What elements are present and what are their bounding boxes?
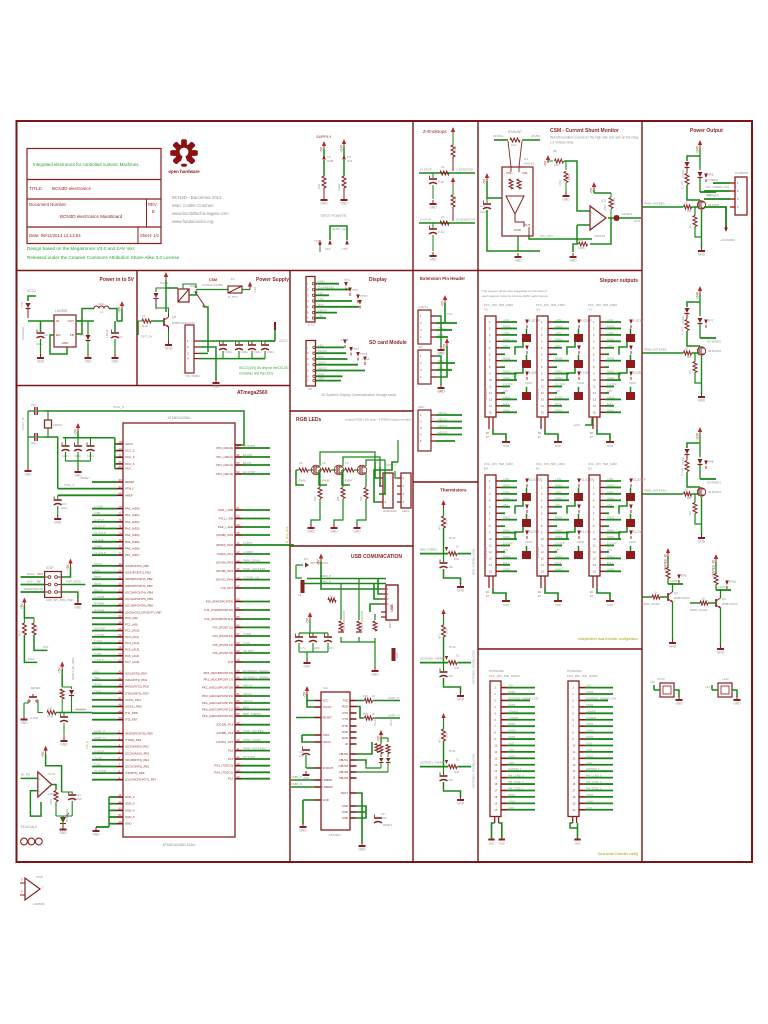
stepper X2 decoupling cap 2 — [522, 360, 531, 368]
svg-text:GND2: GND2 — [555, 376, 563, 380]
C6 ground — [40, 354, 42, 358]
svg-text:SUPP_ADJ: SUPP_ADJ — [332, 227, 348, 231]
reset button gnd — [23, 703, 25, 716]
power stage led diode HOTEND0 — [699, 302, 701, 316]
stepper X3 pin12 wire — [553, 392, 557, 394]
opamp output wire — [52, 785, 56, 791]
svg-text:59: 59 — [119, 652, 122, 656]
svg-text:VARISTORCN0B: VARISTORCN0B — [343, 610, 346, 630]
svg-text:10K: 10K — [453, 146, 457, 151]
endstop ground — [432, 252, 434, 256]
stepper X2 pin10 wire — [501, 379, 517, 381]
stepper X3 pin7 wire — [553, 360, 569, 362]
rgb pwm loop wire G-PWM — [319, 470, 327, 485]
section divider vertical x413 — [412, 121, 414, 862]
svg-text:GND: GND — [20, 721, 28, 725]
usb gnd pin wire — [370, 604, 381, 612]
svg-text:R6: R6 — [553, 149, 557, 153]
svg-text:Z+STOP: Z+STOP — [420, 168, 432, 172]
IC port B pins — [117, 565, 124, 567]
varistor 1 — [340, 584, 342, 619]
hotend HOTEND1 pin20 wire — [585, 809, 613, 811]
op-amp IC1A triangle — [38, 772, 52, 797]
svg-text:+5V: +5V — [590, 187, 594, 194]
fan transistor Q5 — [715, 599, 717, 607]
svg-text:22p: 22p — [31, 403, 36, 407]
stepper E0 pin3 wire — [501, 493, 517, 495]
thermistor testpoint BED_THERM — [445, 547, 448, 551]
svg-text:PA1_(AD1): PA1_(AD1) — [125, 513, 139, 517]
svg-text:OSCO: OSCO — [323, 740, 332, 744]
svg-text:LCD/SD_CS: LCD/SD_CS — [243, 576, 259, 580]
test point TP16 — [343, 340, 347, 345]
thermistor pullup 4K7 HOTEND1_THERM — [443, 721, 445, 729]
rgb driver resistor G-PWM — [319, 469, 322, 471]
svg-text:100u: 100u — [225, 350, 232, 354]
svg-text:(OC4B)_PH4: (OC4B)_PH4 — [216, 569, 233, 573]
svg-text:GND2: GND2 — [586, 690, 594, 694]
svg-text:+5V: +5V — [544, 160, 548, 167]
IC U3 ATMEGA2560 body — [123, 423, 235, 837]
section divider horizontal y385 ATmega box top — [17, 385, 291, 387]
svg-text:S-PST: S-PST — [30, 716, 39, 720]
stepper X3 gnd wire — [545, 429, 558, 442]
ft232 vcc wires — [307, 694, 315, 701]
svg-text:CBUS0: CBUS0 — [339, 752, 349, 756]
led supply — [379, 730, 383, 735]
svg-text:PA2_(AD2): PA2_(AD2) — [125, 520, 139, 524]
svg-text:PWM_HOTEND1: PWM_HOTEND1 — [644, 489, 667, 493]
hotend HOTEND0 pin11 wire — [507, 751, 535, 753]
test point TP3 — [345, 240, 349, 245]
hotend HOTEND1 pin8 wire — [585, 732, 613, 734]
svg-text:UART_N: UART_N — [388, 714, 400, 718]
fan gnd Q5 — [720, 608, 722, 646]
svg-text:TP13: TP13 — [360, 352, 368, 356]
svg-text:Y-STOP: Y-STOP — [94, 633, 105, 637]
cap C24 — [486, 198, 488, 203]
open hardware logo gear — [170, 139, 198, 167]
svg-text:+5V: +5V — [74, 428, 78, 435]
hotend HOTEND0 pin19 wire — [507, 802, 535, 804]
svg-text:98: 98 — [119, 492, 122, 496]
decoupling gnd rail — [66, 460, 91, 462]
svg-text:X+CN: X+CN — [94, 756, 102, 760]
svg-text:1K: 1K — [456, 758, 459, 762]
svg-text:E2-STEP: E2-STEP — [633, 478, 646, 482]
reset cap gnd — [63, 737, 65, 741]
svg-text:(SCK/PCINT1)_PB1: (SCK/PCINT1)_PB1 — [125, 571, 151, 575]
svg-text:Power in to 5V: Power in to 5V — [100, 277, 135, 283]
thermistor junction wire HOTEND0_THERM — [420, 662, 448, 664]
svg-text:PW_STND_1: PW_STND_1 — [508, 786, 524, 790]
svg-text:GND2: GND2 — [586, 703, 594, 707]
shield resistor 1M — [392, 648, 396, 661]
svg-text:GND2: GND2 — [607, 337, 615, 341]
svg-text:GND: GND — [698, 399, 706, 403]
svg-text:R35: R35 — [445, 519, 449, 525]
svg-text:HOTEND0_THERM: HOTEND0_THERM — [420, 657, 445, 661]
svg-text:Power Supply: Power Supply — [256, 277, 289, 283]
svg-text:67: 67 — [237, 632, 240, 636]
reset supply — [60, 662, 64, 667]
svg-text:PJ1_(TXD3/PCINT10): PJ1_(TXD3/PCINT10) — [204, 608, 233, 612]
thermistor supply HOTEND0_THERM — [441, 609, 445, 614]
IC right pins group 5 — [235, 635, 242, 637]
svg-text:4K7: 4K7 — [438, 634, 442, 640]
stepper E0 pin12 wire — [501, 551, 505, 553]
svg-text:34: 34 — [119, 485, 122, 489]
svg-text:GND: GND — [111, 360, 119, 364]
svg-text:R_LED: R_LED — [681, 181, 684, 189]
svg-text:+5V: +5V — [443, 343, 447, 350]
stepper X3 pin14 wire — [553, 405, 562, 407]
endstop pullup resistor — [452, 135, 454, 145]
svg-text:IRLML6344: IRLML6344 — [708, 491, 722, 494]
feedback bottom resistor R44 — [590, 218, 611, 244]
svg-text:Z-STOP: Z-STOP — [503, 542, 513, 546]
hotend HOTEND0 pin6 wire — [507, 719, 535, 721]
svg-text:GND: GND — [125, 822, 131, 826]
svg-text:41: 41 — [237, 747, 240, 751]
power stage testpoint HOTEND1 — [704, 461, 708, 466]
svg-text:LM2595: LM2595 — [55, 309, 67, 313]
svg-text:GND: GND — [437, 390, 445, 394]
section divider horizontal y270 — [17, 270, 643, 272]
svg-text:XTAL1_16: XTAL1_16 — [21, 417, 25, 430]
svg-text:S24: S24 — [347, 159, 353, 163]
cap C7 — [114, 321, 116, 332]
svg-text:22p: 22p — [31, 441, 36, 445]
svg-text:PW_STND_0: PW_STND_0 — [508, 780, 524, 784]
svg-text:TP18: TP18 — [362, 357, 370, 361]
svg-text:ATmega2560: ATmega2560 — [237, 390, 268, 396]
ground tp1 — [323, 196, 325, 200]
svg-text:100n: 100n — [480, 210, 487, 214]
stepper E1 pin3 wire — [553, 493, 569, 495]
svg-text:C24: C24 — [480, 204, 486, 208]
stepper Y3 pin4 wire — [605, 340, 621, 342]
svg-text:GND: GND — [503, 603, 509, 607]
svg-text:GND: GND — [342, 816, 348, 820]
svg-text:C18: C18 — [299, 750, 304, 754]
svg-text:(ICP1)_PD4: (ICP1)_PD4 — [125, 698, 141, 702]
svg-text:BYS10: BYS10 — [682, 315, 685, 323]
svg-text:(OC5C)_PL5: (OC5C)_PL5 — [216, 740, 233, 744]
svg-text:GND2: GND2 — [607, 535, 615, 539]
svg-text:100: 100 — [119, 440, 124, 444]
svg-text:HOTEND0: HOTEND0 — [489, 669, 504, 673]
stepper E0 cap wires — [526, 487, 528, 493]
svg-text:TXD1: TXD1 — [94, 689, 102, 693]
svg-text:PG4_(TOSC1): PG4_(TOSC1) — [214, 770, 233, 774]
svg-text:BED_THERM_CON: BED_THERM_CON — [472, 549, 476, 575]
test gnd sym — [361, 842, 363, 846]
stepper connector X3 body — [537, 316, 548, 417]
stepper E0 pin10 wire — [501, 538, 517, 540]
Q4 emitter gnd — [168, 327, 170, 331]
svg-text:SCK: SCK — [94, 569, 100, 573]
C18 ground — [305, 768, 307, 772]
svg-text:0-DIR: 0-DIR — [577, 381, 584, 385]
stepper E2 testpoint 2 — [629, 505, 633, 510]
svg-text:G-PWM: G-PWM — [319, 479, 330, 483]
svg-text:GND2: GND2 — [607, 357, 615, 361]
svg-text:Integrated electronics for con: Integrated electronics for controlled nu… — [33, 162, 140, 167]
svg-text:GND: GND — [342, 804, 348, 808]
svg-text:ADC15: ADC15 — [438, 431, 448, 435]
INA OUT wire — [529, 236, 592, 239]
OUT wire — [76, 309, 94, 322]
fan resistor LFAN0 — [666, 568, 670, 579]
svg-text:-: - — [39, 789, 40, 793]
svg-text:USBD_N: USBD_N — [291, 782, 302, 786]
svg-text:100u: 100u — [98, 302, 105, 306]
svg-text:PL7: PL7 — [228, 757, 234, 761]
I2C wire SCL — [436, 369, 452, 371]
svg-text:VCC_3: VCC_3 — [125, 455, 135, 459]
svg-text:BCN3D electronics MainBoard: BCN3D electronics MainBoard — [60, 214, 123, 219]
svg-text:C17: C17 — [381, 812, 386, 816]
svg-text:HOTEND-0: HOTEND-0 — [586, 767, 600, 771]
svg-text:23: 23 — [119, 589, 122, 593]
svg-text:HOTEND0: HOTEND0 — [707, 340, 721, 344]
svg-text:E2-DIR: E2-DIR — [633, 530, 644, 534]
fuse F1 — [196, 289, 228, 291]
svg-text:Q5: Q5 — [722, 597, 726, 601]
rgb gnd L-PWM — [310, 524, 312, 528]
svg-text:Q4: Q4 — [674, 591, 678, 595]
svg-text:E1-DIR: E1-DIR — [581, 530, 592, 534]
stepper X2 pin2 wire — [501, 327, 517, 329]
svg-text:VCC_4: VCC_4 — [125, 462, 135, 466]
svg-text:IC3: IC3 — [601, 199, 606, 203]
svg-text:49: 49 — [237, 523, 240, 527]
svg-text:RESET: RESET — [323, 716, 333, 720]
base resistor R10 — [138, 320, 142, 322]
stepper E2 cap wires — [630, 487, 632, 493]
svg-text:3V3OUT: 3V3OUT — [323, 766, 334, 770]
ESD diode D4 — [296, 564, 303, 566]
svg-text:100u: 100u — [241, 350, 248, 354]
section divider horizontal y482 Thermistors top — [413, 481, 478, 483]
svg-text:RXD1: RXD1 — [94, 683, 102, 687]
fan resistor LFAN1 — [714, 574, 718, 585]
svg-text:LED-R: LED-R — [318, 309, 327, 313]
D3 ground — [87, 354, 89, 358]
svg-text:LM358D: LM358D — [33, 902, 45, 906]
svg-text:(MISO/PCINT3)_PB3: (MISO/PCINT3)_PB3 — [125, 584, 153, 588]
svg-text:4K7: 4K7 — [35, 625, 39, 631]
reset diode D6 — [62, 687, 71, 689]
svg-text:0-DIR: 0-DIR — [525, 540, 532, 544]
svg-text:OUT: OUT — [67, 319, 74, 323]
svg-text:L1: L1 — [100, 310, 104, 314]
stepper X2 pin12 wire — [501, 392, 505, 394]
svg-text:R35: R35 — [445, 628, 449, 634]
svg-text:PA3_(AD3): PA3_(AD3) — [125, 527, 139, 531]
stepper E1 testpoint 2 — [577, 505, 581, 510]
svg-text:PF0_(ADC0): PF0_(ADC0) — [216, 446, 233, 450]
stepper E0 pin13 wire — [501, 557, 517, 559]
rgb mosfet B-PWM — [359, 466, 361, 474]
svg-text:PWM_LFAN1: PWM_LFAN1 — [243, 559, 261, 563]
svg-text:E1-DP: E1-DP — [243, 461, 252, 465]
svg-text:Z-STEP: Z-STEP — [633, 319, 644, 323]
svg-text:0-DIR: 0-DIR — [525, 381, 532, 385]
svg-text:R10: R10 — [142, 324, 148, 328]
ADC wire ADC12 — [436, 421, 462, 423]
svg-text:GND: GND — [669, 645, 677, 649]
svg-text:FFC_15V_500_1MM: FFC_15V_500_1MM — [484, 462, 513, 466]
svg-text:RESET: RESET — [31, 686, 41, 690]
svg-text:MMBT2222A: MMBT2222A — [722, 602, 738, 606]
stepper E0 gnd wire — [493, 588, 506, 601]
svg-text:+24V: +24V — [503, 318, 510, 322]
thermistor ground BED_THERM — [460, 583, 462, 587]
stepper E2 pin14 wire — [605, 564, 614, 566]
fan transistor Q4 — [667, 593, 669, 601]
svg-text:GND2: GND2 — [555, 370, 563, 374]
rgb gnd G-PWM — [333, 524, 335, 528]
svg-text:R25: R25 — [49, 799, 53, 805]
pullup resistor R13 — [33, 618, 35, 623]
stepper X2 pin13 wire — [501, 398, 517, 400]
hotbed out arrow — [724, 228, 728, 233]
stepper E2 pin2 wire — [605, 486, 621, 488]
svg-text:HOTEND1_THERM_CON: HOTEND1_THERM_CON — [586, 696, 616, 700]
ft232 reset wire — [296, 717, 315, 719]
led return wires — [357, 766, 382, 768]
svg-text:(OC0B)_PG5: (OC0B)_PG5 — [216, 533, 234, 537]
svg-text:BCN3D electronics: BCN3D electronics — [52, 186, 92, 191]
relay K1 coil box — [178, 289, 189, 302]
svg-text:10K: 10K — [317, 184, 321, 189]
svg-text:GND: GND — [698, 540, 706, 544]
svg-text:100u: 100u — [36, 342, 43, 346]
svg-text:GND2: GND2 — [508, 690, 516, 694]
svg-text:(OC3C/INT5)_PE5: (OC3C/INT5)_PE5 — [125, 765, 149, 769]
svg-text:RESET(MAIN): RESET(MAIN) — [24, 587, 43, 591]
ADC wire — [436, 440, 455, 442]
svg-text:PC7_(A15): PC7_(A15) — [125, 660, 139, 664]
svg-text:USB COMUNICATION: USB COMUNICATION — [351, 554, 402, 560]
svg-text:T-CN: T-CN — [94, 763, 101, 767]
svg-text:1K: 1K — [441, 165, 445, 169]
svg-text:+24V: +24V — [573, 423, 580, 427]
svg-text:each stepper motor to improve: each stepper motor to improve EMC perfor… — [482, 294, 548, 298]
stepper E1 pin7 wire — [553, 519, 569, 521]
usbdp wire — [291, 779, 315, 781]
stepper E1 testpoint 3 — [577, 531, 581, 536]
svg-text:GND: GND — [342, 810, 348, 814]
svg-text:INA_OUT: INA_OUT — [540, 234, 553, 238]
usb rail down — [296, 565, 302, 578]
cbus wires to leds — [357, 742, 373, 754]
thermistor series resistor HOTEND1_THERM — [448, 765, 457, 769]
svg-text:R50: R50 — [687, 210, 692, 213]
thermistor series resistor HOTEND0_THERM — [448, 661, 457, 665]
spare ic block 2 — [718, 683, 732, 697]
svg-text:100n: 100n — [61, 506, 68, 510]
svg-text:PWM_HOTBED: PWM_HOTBED — [644, 202, 665, 206]
svg-text:38: 38 — [237, 721, 240, 725]
fiducial mark 3 — [35, 838, 42, 845]
hotend connector HOTEND0 body — [490, 681, 501, 817]
svg-text:77: 77 — [119, 511, 122, 515]
spare ic block 1 — [660, 683, 674, 697]
svg-text:50: 50 — [119, 716, 122, 720]
svg-text:IN: IN — [56, 319, 59, 323]
svg-text:19: 19 — [119, 562, 122, 566]
power stage testpoint HOTBED — [704, 174, 708, 179]
stepper E1 pin1 wire — [553, 480, 569, 482]
power stage led diode HOTBED — [699, 156, 701, 170]
svg-text:+5V: +5V — [586, 684, 591, 688]
svg-text:GND: GND — [569, 259, 577, 263]
C7 ground — [114, 354, 116, 358]
svg-text:60: 60 — [119, 658, 122, 662]
crystal Q1 — [45, 420, 52, 428]
svg-text:HOTEND1: HOTEND1 — [707, 481, 721, 485]
svg-text:SCK: SCK — [27, 580, 33, 584]
svg-text:HOTEND0_THERM_CON: HOTEND0_THERM_CON — [472, 650, 476, 684]
stepper E2 decoupling cap 3 — [626, 551, 635, 559]
hotend HOTEND0 pin3 wire — [507, 699, 530, 701]
shunt sense wires to INA — [508, 141, 511, 167]
stepper X2 pin8 wire — [501, 366, 505, 368]
IC power pins AVCC VCC bundle — [117, 443, 124, 445]
svg-text:LM321S: LM321S — [594, 234, 605, 238]
svg-text:72: 72 — [119, 545, 122, 549]
svg-text:CTS: CTS — [342, 717, 348, 721]
I2C pullup supply — [22, 598, 26, 603]
svg-text:PJ6_(PCINT15): PJ6_(PCINT15) — [213, 651, 233, 655]
svg-text:+5V: +5V — [555, 344, 560, 348]
shunt resistor RSHUNT — [494, 139, 508, 141]
svg-text:RESET: RESET — [383, 823, 392, 827]
svg-text:+5V: +5V — [66, 564, 70, 571]
endstop filter cap — [432, 173, 434, 178]
svg-text:CBUS2: CBUS2 — [339, 764, 349, 768]
svg-text:D3: D3 — [80, 333, 84, 337]
stepper Y3 pin10 wire — [605, 379, 621, 381]
I2C gnd wire — [436, 356, 441, 385]
svg-text:13: 13 — [237, 550, 240, 554]
svg-text:X2: X2 — [484, 308, 488, 312]
svg-text:GND: GND — [92, 833, 100, 837]
svg-text:T-DIN: T-DIN — [94, 652, 102, 656]
stepper X3 pin5 wire — [553, 347, 562, 349]
svg-text:FLT2: FLT2 — [607, 402, 614, 406]
hotend connector HOTEND1 body — [568, 681, 579, 817]
+5V out arrow — [120, 301, 124, 306]
svg-text:21: 21 — [119, 575, 122, 579]
R6 wire to opamp — [564, 161, 590, 211]
svg-text:GND: GND — [698, 253, 706, 257]
XTAL_2 wire — [44, 436, 48, 438]
svg-text:VCC2: VCC2 — [27, 289, 36, 293]
svg-text:+5V: +5V — [503, 548, 508, 552]
stepper E0 decoupling cap 1 — [522, 493, 531, 501]
svg-text:R40: R40 — [454, 666, 459, 670]
stepper Y3 decoupling cap 2 — [626, 360, 635, 368]
svg-text:65: 65 — [237, 615, 240, 619]
svg-text:40: 40 — [237, 738, 240, 742]
svg-text:GND2: GND2 — [508, 735, 516, 739]
svg-text:10n: 10n — [449, 778, 454, 782]
svg-text:R44: R44 — [577, 238, 583, 242]
